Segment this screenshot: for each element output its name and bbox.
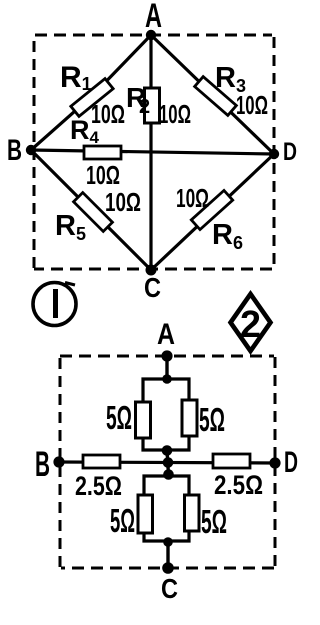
wire A-C: [149, 35, 152, 270]
wire A-D: [151, 35, 274, 154]
junction bottom pair bottom: [163, 537, 173, 547]
svg-text:D: D: [284, 446, 298, 479]
svg-text:5Ω: 5Ω: [110, 502, 135, 539]
wire B-A: [31, 35, 151, 150]
node C (circuit 2): [162, 562, 174, 574]
svg-text:B: B: [7, 134, 22, 167]
junction middle line center: [163, 457, 174, 468]
svg-text:A: A: [157, 318, 175, 351]
wire B-C: [31, 150, 151, 270]
wire B-D middle line: [59, 462, 275, 463]
enclosure dashed box around bridge circuit 1: [34, 35, 274, 269]
svg-text:10Ω: 10Ω: [86, 160, 120, 190]
svg-text:2: 2: [240, 304, 261, 346]
resistor 2.5 ohm left body: [83, 455, 120, 468]
enclosure dashed box around circuit 2: [60, 356, 275, 568]
node A: [146, 30, 156, 40]
svg-text:10Ω: 10Ω: [236, 90, 268, 120]
wire loop of top parallel pair: [143, 379, 189, 450]
resistor 2.5 ohm right body: [213, 454, 250, 468]
node D: [269, 149, 279, 159]
wire loop of bottom parallel pair: [144, 476, 189, 541]
junction bottom pair top: [163, 469, 174, 480]
junction top pair bottom: [162, 445, 173, 456]
svg-text:C: C: [144, 272, 161, 303]
junction top pair top: [162, 374, 172, 384]
figure number 2 in diamond: [231, 294, 271, 351]
svg-text:2.5Ω: 2.5Ω: [214, 470, 263, 500]
node A (circuit 2): [161, 350, 172, 361]
wire node A to top parallel pair: [165, 356, 168, 380]
resistor R1 body: [71, 79, 113, 117]
node B (circuit 2): [53, 456, 64, 467]
node B: [26, 145, 36, 155]
svg-text:5Ω: 5Ω: [199, 401, 225, 438]
resistor R6 body: [191, 190, 232, 229]
svg-text:5Ω: 5Ω: [201, 503, 227, 540]
svg-text:10Ω: 10Ω: [159, 99, 191, 129]
resistor R5 body: [74, 193, 113, 232]
svg-text:B: B: [35, 445, 50, 484]
wire top pair to middle line: [167, 450, 169, 475]
wire C-D: [151, 154, 274, 270]
resistor R2 body: [145, 88, 160, 123]
svg-text:D: D: [283, 138, 297, 166]
svg-text:10Ω: 10Ω: [91, 99, 125, 129]
svg-text:2.5Ω: 2.5Ω: [75, 471, 122, 501]
wire B-D: [31, 150, 274, 154]
svg-text:5Ω: 5Ω: [106, 399, 132, 436]
figure number 1 in circle: [33, 283, 76, 326]
resistor 5 ohm top-left body: [136, 402, 151, 438]
resistor R4 body: [84, 146, 121, 159]
resistor R3 body: [195, 77, 237, 116]
svg-text:10Ω: 10Ω: [105, 187, 141, 217]
svg-text:C: C: [161, 573, 178, 604]
resistor 5 ohm bottom-right body: [185, 495, 200, 531]
wire bottom pair to node C: [166, 541, 169, 568]
node D (circuit 2): [269, 457, 280, 468]
node C: [146, 265, 157, 276]
resistor 5 ohm bottom-left body: [138, 495, 153, 533]
resistor 5 ohm top-right body: [182, 400, 197, 436]
svg-text:2: 2: [139, 96, 150, 118]
svg-text:10Ω: 10Ω: [176, 183, 209, 213]
svg-text:A: A: [145, 0, 162, 35]
